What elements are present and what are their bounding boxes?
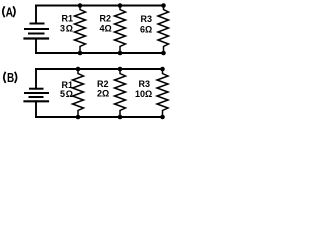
svg-text:6Ω: 6Ω	[140, 24, 152, 34]
wire bottom rail circuit A	[36, 52, 164, 54]
node dot R2 bottom B	[118, 115, 123, 120]
wire bottom rail circuit B	[36, 116, 163, 118]
resistor R3 circuit B	[157, 69, 168, 117]
node dot R1 top A	[78, 3, 83, 8]
resistor R1 circuit A	[75, 6, 86, 54]
node dot R2 top B	[118, 67, 123, 72]
svg-text:10Ω: 10Ω	[135, 89, 152, 99]
svg-text:5Ω: 5Ω	[60, 89, 74, 99]
wire top rail circuit A	[36, 5, 164, 7]
node dot R1 bottom A	[78, 51, 83, 56]
svg-text:4Ω: 4Ω	[100, 23, 112, 33]
battery circuit A	[25, 6, 49, 54]
svg-text:R3: R3	[139, 79, 151, 89]
svg-text:R2: R2	[100, 13, 112, 23]
resistor R2 circuit A	[115, 6, 126, 54]
node dot R2 bottom A	[118, 51, 123, 56]
battery circuit B	[25, 69, 49, 117]
svg-text:R3: R3	[141, 14, 153, 24]
svg-text:R1: R1	[62, 14, 74, 24]
label (B)	[4, 70, 17, 85]
node dot R1 top B	[76, 67, 81, 72]
svg-text:3Ω: 3Ω	[60, 23, 74, 33]
node dot R1 bottom B	[76, 115, 81, 120]
svg-text:2Ω: 2Ω	[97, 88, 109, 98]
node dot R3 top B	[160, 67, 165, 72]
wire top rail circuit B	[36, 68, 163, 70]
svg-text:A: A	[6, 4, 14, 19]
node dot R3 bottom A	[161, 51, 166, 56]
node dot R3 top A	[161, 3, 166, 8]
resistor R2 circuit B	[115, 69, 126, 117]
node dot R2 top A	[118, 3, 123, 8]
svg-text:B: B	[7, 70, 14, 85]
resistor R3 circuit A	[158, 6, 169, 54]
label (A)	[3, 4, 15, 19]
node dot R3 bottom B	[160, 115, 165, 120]
resistor R1 circuit B	[73, 69, 84, 117]
